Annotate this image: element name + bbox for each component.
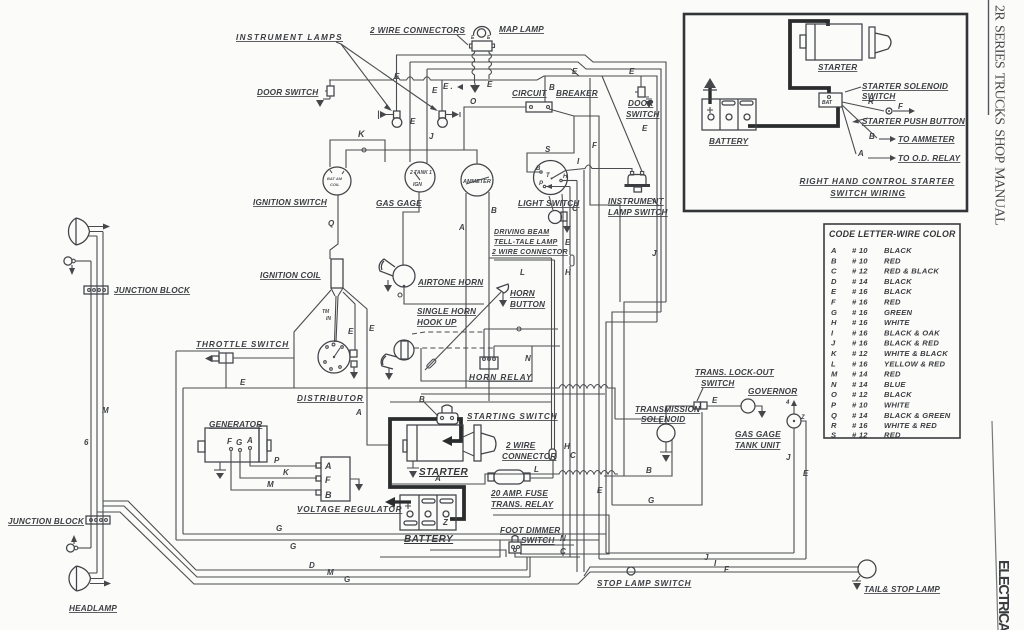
svg-text:2 WIRE CONNECTOR: 2 WIRE CONNECTOR	[491, 249, 568, 256]
gas gage tank unit T1	[787, 414, 801, 428]
C wire down from light switch	[562, 194, 563, 556]
svg-text:STARTER PUSH BUTTON: STARTER PUSH BUTTON	[862, 117, 966, 126]
headlamp upper arrow	[103, 224, 110, 230]
svg-text:E: E	[712, 396, 718, 405]
wire to OD relay	[842, 107, 856, 154]
thick cable battery to solenoid	[748, 107, 838, 126]
ammeter needle	[466, 177, 489, 184]
LEFTCOL	[8, 218, 578, 613]
svg-text:G: G	[236, 438, 242, 447]
K loop wire	[330, 140, 385, 167]
L wire below connector	[552, 460, 554, 478]
svg-text:RED: RED	[884, 430, 901, 439]
svg-text:2 WIRE CONNECTORS: 2 WIRE CONNECTORS	[369, 26, 465, 35]
O label	[362, 148, 366, 152]
generator end cap	[259, 426, 267, 462]
MIDDLE	[176, 259, 615, 540]
pointer to left bulb	[341, 44, 390, 109]
svg-text:RED: RED	[884, 370, 901, 379]
throttle switch body	[219, 353, 233, 363]
distributor terminal	[350, 350, 357, 357]
svg-text:# 12: # 12	[852, 430, 868, 439]
top horizontal wire 3	[427, 69, 657, 322]
starting switch SW4	[437, 413, 458, 424]
diagonal wire to instrument lamp switch	[602, 76, 642, 172]
svg-text:H: H	[831, 318, 837, 327]
dashed hookup wire 2	[414, 347, 494, 349]
svg-text:4: 4	[785, 400, 790, 406]
map lamp bulb	[477, 29, 485, 37]
svg-text:BAT: BAT	[822, 100, 833, 106]
svg-text:RED: RED	[884, 298, 901, 307]
svg-text:# 14: # 14	[852, 277, 868, 286]
airtone horn H1	[393, 265, 415, 287]
starter pinion cone	[463, 432, 474, 456]
svg-text:E: E	[369, 324, 375, 333]
lockout connector	[694, 402, 701, 409]
battery plus	[405, 503, 411, 509]
ground bar	[703, 89, 717, 91]
svg-text:N: N	[831, 380, 837, 389]
L wire pair down	[552, 258, 555, 449]
ground arrow up	[704, 78, 716, 88]
ammeter B wire down	[488, 192, 490, 401]
I bottom wire	[599, 558, 806, 560]
M wire gen F to reg B	[231, 451, 317, 490]
door switch right symbol	[602, 76, 657, 87]
bundle B line 2	[576, 181, 578, 573]
thick cable switch to starter	[452, 419, 461, 441]
svg-text:D: D	[309, 561, 315, 570]
svg-text:E: E	[803, 469, 809, 478]
voltage regulator VR1 box	[321, 457, 350, 501]
svg-text:Z: Z	[800, 415, 805, 421]
top horizontal wire 1	[396, 55, 666, 302]
svg-text:A: A	[246, 436, 253, 445]
svg-text:L: L	[831, 359, 836, 368]
parking lamp ground arrow	[71, 265, 73, 268]
ignition coil body	[331, 259, 343, 288]
svg-text:TO O.D. RELAY: TO O.D. RELAY	[898, 154, 962, 163]
svg-text:# 10: # 10	[852, 256, 868, 265]
H terminal	[560, 179, 562, 181]
starter stub	[403, 440, 407, 452]
P wire with arrow	[546, 184, 552, 189]
svg-text:WHITE & RED: WHITE & RED	[884, 421, 937, 430]
battery lower bars	[404, 521, 417, 525]
distributor rotor	[334, 348, 340, 357]
N wire	[521, 544, 574, 546]
2wire connector capsule	[549, 449, 556, 460]
svg-text:HOOK UP: HOOK UP	[417, 318, 457, 327]
svg-text:S: S	[545, 145, 551, 154]
E trunk wire	[183, 385, 615, 420]
G trunk wire 2	[176, 539, 599, 541]
bulb left arrow	[379, 111, 394, 120]
svg-text:STARTER: STARTER	[818, 63, 857, 72]
ammeter top feed	[464, 150, 477, 164]
bundle C turn 1	[624, 302, 666, 476]
bulb left wire up	[396, 55, 398, 111]
svg-text:J: J	[831, 339, 836, 348]
solenoid ground	[660, 442, 672, 452]
battery B2 box	[702, 99, 756, 130]
svg-text:C: C	[570, 451, 576, 460]
svg-text:J: J	[786, 453, 791, 462]
generator G2 body	[205, 428, 259, 462]
svg-text:O: O	[831, 390, 837, 399]
pointer to solenoid label	[845, 87, 861, 92]
svg-text:SWITCH: SWITCH	[626, 110, 660, 119]
E wire solenoid to governor	[666, 406, 741, 424]
D wire corner	[526, 557, 528, 570]
svg-text:B: B	[491, 206, 497, 215]
svg-text:A: A	[830, 246, 837, 255]
B terminal	[540, 171, 542, 173]
horn terminal	[403, 285, 406, 288]
door switch left symbol	[327, 86, 334, 96]
svg-text:E: E	[432, 86, 438, 95]
svg-text:YELLOW & RED: YELLOW & RED	[884, 359, 945, 368]
instrument lamp switch SW3	[628, 175, 646, 185]
svg-text:C: C	[831, 267, 837, 276]
starting switch cap	[442, 405, 452, 413]
lower horn ground	[388, 368, 390, 373]
svg-text:M: M	[102, 406, 109, 415]
lower horn bell	[381, 354, 397, 369]
svg-text:DOOR: DOOR	[628, 99, 653, 108]
O loop wire	[346, 150, 464, 168]
branch diagonal M	[103, 506, 530, 577]
svg-text:BLACK: BLACK	[884, 390, 912, 399]
svg-text:R: R	[831, 421, 837, 430]
svg-text:B: B	[549, 83, 555, 92]
svg-text:WHITE: WHITE	[884, 401, 910, 410]
BOTTOM	[176, 524, 940, 594]
B wire diagonal to switch	[424, 402, 438, 416]
svg-text:TELL-TALE LAMP: TELL-TALE LAMP	[494, 239, 558, 246]
svg-text:E: E	[597, 486, 603, 495]
svg-text:# 14: # 14	[852, 370, 868, 379]
battery cell circles	[708, 114, 714, 120]
svg-text:BLUE: BLUE	[884, 380, 906, 389]
horn wire down	[404, 287, 484, 304]
svg-text:BLACK & RED: BLACK & RED	[884, 339, 939, 348]
svg-text:K: K	[831, 349, 837, 358]
svg-text:E .: E .	[443, 82, 453, 91]
svg-text:GOVERNOR: GOVERNOR	[748, 387, 797, 396]
svg-text:6: 6	[84, 438, 89, 447]
svg-text:IGNITION SWITCH: IGNITION SWITCH	[253, 198, 328, 207]
thick battery cable starter loop	[790, 21, 829, 93]
gas gage down wire	[403, 192, 419, 265]
small arrow at ground	[457, 84, 463, 90]
LOWER	[198, 388, 618, 557]
ammeter A wire down	[465, 193, 467, 388]
headlamp upper wires	[88, 227, 103, 237]
headlamp upper	[69, 218, 90, 245]
O wire from breaker	[464, 107, 526, 150]
svg-text:SWITCH WIRING: SWITCH WIRING	[830, 189, 905, 198]
svg-text:A: A	[355, 408, 362, 417]
svg-text:E: E	[642, 124, 648, 133]
svg-text:E: E	[348, 327, 354, 336]
svg-text:HORN: HORN	[510, 289, 536, 298]
svg-text:VOLTAGE REGULATOR: VOLTAGE REGULATOR	[297, 505, 402, 514]
svg-text:M: M	[267, 480, 274, 489]
svg-text:G: G	[648, 496, 654, 505]
svg-text:IN: IN	[326, 316, 331, 322]
svg-text:GAS GAGE: GAS GAGE	[376, 199, 422, 208]
horn ground	[387, 280, 389, 285]
cable arrow into starter	[442, 436, 452, 446]
TOPCENTER	[236, 25, 666, 322]
G wire to governor loop	[612, 412, 702, 505]
battery top bars	[722, 101, 735, 105]
stop lamp switch SW6	[627, 567, 635, 575]
relay wires up	[484, 329, 494, 357]
svg-text:A: A	[434, 474, 441, 483]
parking lamp lower arrow up	[73, 542, 75, 544]
I wire from needle	[566, 165, 633, 172]
solenoid switch box	[819, 93, 842, 107]
battery ground strap	[708, 86, 711, 104]
svg-text:TM: TM	[322, 309, 330, 315]
bundle B line 3	[583, 170, 585, 572]
svg-text:M: M	[327, 568, 334, 577]
gas gage G1	[405, 162, 435, 192]
svg-text:AIRTONE HORN: AIRTONE HORN	[417, 278, 484, 287]
svg-text:STOP LAMP SWITCH: STOP LAMP SWITCH	[597, 579, 692, 588]
starter stub	[800, 35, 806, 48]
starter push button	[886, 108, 892, 114]
breaker out diagonal	[527, 109, 574, 172]
svg-text:WHITE: WHITE	[884, 318, 910, 327]
svg-text:STARTER: STARTER	[419, 467, 468, 478]
svg-text:CIRCUIT: CIRCUIT	[512, 89, 547, 98]
svg-text:BLACK: BLACK	[884, 246, 912, 255]
wire trunk left verticals	[90, 261, 92, 548]
GAUGES	[253, 129, 669, 557]
C wire	[515, 553, 580, 557]
throttle down wire	[225, 363, 227, 388]
battery ground arrow thick	[394, 500, 411, 503]
svg-text:N: N	[560, 534, 566, 543]
svg-text:JUNCTION BLOCK: JUNCTION BLOCK	[8, 517, 85, 526]
svg-text:SINGLE HORN: SINGLE HORN	[417, 307, 477, 316]
svg-text:SOLENOID: SOLENOID	[641, 415, 685, 424]
map lamp wire right with bumps	[489, 51, 492, 79]
distributor ground	[351, 361, 357, 367]
relay N wire	[484, 329, 560, 346]
connector dot on N	[517, 327, 521, 331]
J bottom wire	[606, 552, 794, 554]
horn button ground	[502, 293, 504, 300]
light switch SW2	[534, 161, 568, 195]
svg-text:# 16: # 16	[852, 339, 868, 348]
top horizontal wire 2	[410, 62, 661, 312]
svg-text:HEADLAMP: HEADLAMP	[69, 604, 117, 613]
ammeter M1	[461, 164, 493, 196]
relay enclosure wire	[421, 346, 560, 381]
svg-text:COIL: COIL	[330, 182, 340, 187]
map lamp ring	[474, 27, 491, 36]
svg-text:TANK UNIT: TANK UNIT	[735, 441, 781, 450]
svg-text:THROTTLE SWITCH: THROTTLE SWITCH	[196, 340, 289, 349]
svg-text:# 16: # 16	[852, 287, 868, 296]
ignition switch SW1	[323, 167, 351, 195]
solenoid feed from bundle	[615, 419, 660, 424]
map lamp base	[472, 41, 492, 51]
tail lamp feed wire	[584, 567, 859, 576]
svg-text:H: H	[564, 442, 570, 451]
svg-text:DISTRIBUTOR: DISTRIBUTOR	[297, 394, 364, 403]
to ammeter arrow	[879, 138, 890, 140]
ground arrow under map lamp	[474, 83, 476, 85]
svg-text:BLACK: BLACK	[884, 287, 912, 296]
svg-text:G: G	[290, 542, 296, 551]
tank unit antenna	[793, 406, 795, 414]
svg-text:B: B	[831, 256, 837, 265]
svg-text:CODE LETTER-WIRE COLOR: CODE LETTER-WIRE COLOR	[829, 229, 956, 239]
svg-text:# 12: # 12	[852, 390, 868, 399]
bulb right arrow	[446, 114, 454, 116]
starter band	[416, 425, 418, 461]
headlamp lower	[69, 566, 91, 591]
box bottom wire	[380, 540, 506, 557]
inst lamp switch tick	[652, 199, 659, 206]
INSETBOX	[684, 14, 967, 211]
push button arrow	[893, 110, 909, 112]
svg-text:# 14: # 14	[852, 380, 868, 389]
to OD relay arrow	[868, 157, 890, 159]
map lamp base nubs	[470, 44, 473, 48]
starter end band	[814, 24, 816, 60]
svg-text:# 12: # 12	[852, 267, 868, 276]
svg-text:E: E	[410, 117, 416, 126]
svg-text:STARTING SWITCH: STARTING SWITCH	[467, 412, 558, 421]
gas gage needle	[414, 172, 420, 180]
starter nose cone	[875, 33, 891, 53]
generator stubs	[198, 441, 205, 452]
svg-text:# 16: # 16	[852, 359, 868, 368]
svg-text:2 WIRE: 2 WIRE	[505, 441, 536, 450]
inset frame	[684, 14, 967, 211]
A wire bottom	[392, 471, 618, 485]
airtone horn H1 bell	[379, 259, 395, 276]
inner box vertical	[182, 388, 184, 534]
cable hook at starter	[825, 21, 828, 26]
parking lamp lower stem	[78, 547, 91, 549]
svg-text:GREEN: GREEN	[884, 308, 913, 317]
svg-text:STARTER SOLENOID: STARTER SOLENOID	[862, 82, 948, 91]
small connector oval	[570, 255, 574, 266]
svg-text:F: F	[325, 475, 331, 485]
svg-text:B: B	[325, 490, 332, 500]
svg-text:J: J	[429, 132, 434, 141]
solenoid B wire	[604, 440, 672, 476]
lower horn H2	[394, 340, 414, 360]
RIGHTMID	[564, 116, 809, 572]
K wire gen G to reg F	[240, 452, 317, 478]
svg-text:TRANSMISSION: TRANSMISSION	[635, 405, 701, 414]
relay terminals	[483, 358, 486, 361]
governor ground	[755, 406, 762, 411]
throttle right wire	[233, 358, 294, 388]
tail lamp ground	[852, 576, 861, 581]
page curl edge bottom right	[992, 421, 998, 630]
H wire right	[562, 180, 577, 182]
transmission solenoid L1	[657, 424, 675, 442]
svg-text:BUTTON: BUTTON	[510, 300, 546, 309]
starter M2 body	[407, 425, 463, 461]
door switch right ground	[645, 97, 652, 99]
telltale ground	[566, 221, 568, 226]
page edge rule top right	[988, 0, 990, 115]
map lamp wire left with bumps	[472, 51, 475, 83]
svg-text:Q: Q	[328, 219, 335, 228]
svg-text:# 16: # 16	[852, 308, 868, 317]
svg-text:B: B	[536, 166, 541, 172]
svg-text:TRANS. RELAY: TRANS. RELAY	[491, 500, 555, 509]
svg-text:D: D	[831, 277, 837, 286]
svg-text:# 16: # 16	[852, 298, 868, 307]
tank unit E wire down	[801, 421, 806, 559]
svg-text:20 AMP. FUSE: 20 AMP. FUSE	[490, 489, 548, 498]
svg-text:Q: Q	[831, 411, 837, 420]
svg-text:JUNCTION BLOCK: JUNCTION BLOCK	[114, 286, 191, 295]
svg-text:R: R	[868, 97, 874, 106]
wire color table frame	[824, 224, 960, 438]
headlamp lower arrow	[104, 581, 111, 587]
door switch left ground	[323, 98, 330, 100]
svg-text:IGNITION COIL: IGNITION COIL	[260, 271, 321, 280]
svg-text:2R SERIES TRUCKS SHOP MANUAL: 2R SERIES TRUCKS SHOP MANUAL	[992, 5, 1007, 225]
svg-text:A: A	[324, 461, 332, 471]
G trunk wire 1	[183, 533, 606, 535]
svg-text:SWITCH: SWITCH	[701, 379, 735, 388]
svg-text:E: E	[572, 67, 578, 76]
svg-text:RIGHT HAND CONTROL STARTER: RIGHT HAND CONTROL STARTER	[800, 177, 955, 186]
F wire vertical	[590, 78, 620, 302]
throttle plunger	[212, 356, 219, 361]
Q wire ignition to coil	[330, 195, 338, 259]
lamp stub	[549, 196, 553, 210]
svg-text:TAIL& STOP LAMP: TAIL& STOP LAMP	[864, 585, 940, 594]
P terminal	[543, 185, 545, 187]
generator ground	[219, 462, 221, 470]
svg-text:H: H	[563, 174, 568, 180]
push button pointer arrow	[856, 118, 868, 121]
battery cell circles	[407, 511, 413, 517]
svg-text:P: P	[274, 456, 280, 465]
throttle left box wire	[175, 351, 177, 540]
battery cell dividers	[419, 495, 437, 530]
svg-text:BLACK & GREEN: BLACK & GREEN	[884, 411, 951, 420]
pointer from label	[336, 42, 341, 44]
dashed hookup wire 1	[412, 332, 484, 334]
svg-text:# 16: # 16	[852, 318, 868, 327]
throttle feed wire	[176, 351, 219, 353]
svg-text:N: N	[525, 354, 531, 363]
svg-text:# 10: # 10	[852, 246, 868, 255]
A wire distributor branch	[367, 388, 390, 445]
horn relay K1	[480, 357, 498, 369]
svg-text:2 TANK 1: 2 TANK 1	[409, 170, 432, 176]
battery top bars	[422, 499, 435, 503]
solenoid terminal	[828, 96, 831, 99]
regulator terminals	[316, 463, 321, 468]
